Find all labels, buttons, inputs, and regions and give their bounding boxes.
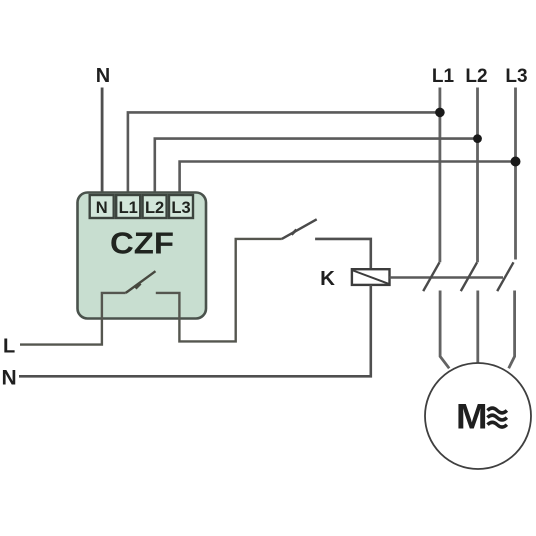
wire phase L1 vertical	[438, 88, 441, 263]
svg-text:L: L	[3, 336, 15, 358]
svg-text:L3: L3	[505, 66, 527, 87]
svg-text:L1: L1	[119, 199, 138, 217]
terminal L3 of CZF	[169, 195, 193, 218]
wire phase L3 vertical	[514, 88, 517, 260]
wire N riser to terminal N	[101, 88, 104, 197]
svg-text:L2: L2	[145, 199, 164, 217]
wire mechanical link from coil to contacts	[390, 276, 504, 278]
contactor coil K	[352, 269, 390, 285]
svg-text:K: K	[320, 267, 335, 290]
junction dot on L2	[473, 134, 482, 143]
motor triple-tilde (3-phase) wave 1	[488, 408, 507, 413]
wire coil K to N line	[19, 285, 371, 376]
wire L2 tap to CZF terminal L2	[155, 139, 478, 196]
svg-text:L1: L1	[432, 66, 455, 87]
svg-text:N: N	[96, 65, 110, 87]
wire L1 to motor	[440, 291, 449, 369]
contactor contact K1 blade (L1)	[423, 262, 439, 291]
terminal L2 of CZF	[143, 195, 167, 218]
wire switch to contactor coil	[315, 239, 371, 269]
switch S1 blade tick	[292, 230, 297, 235]
relay contact blade (inside CZF)	[126, 271, 156, 293]
junction dot on L3	[511, 157, 521, 167]
wire relay contact right lead down and over to switch	[156, 239, 282, 342]
wire phase L2 vertical	[476, 88, 479, 263]
terminal L1 of CZF	[116, 195, 140, 218]
svg-text:N: N	[2, 367, 17, 390]
wire L3 to motor	[509, 291, 515, 369]
contactor coil K diagonal	[353, 271, 389, 284]
junction dot on L1	[435, 108, 445, 118]
svg-text:M: M	[456, 398, 488, 437]
wire L3 tap to CZF terminal L3	[180, 162, 516, 197]
relay contact blade tick	[136, 284, 141, 289]
motor triple-tilde (3-phase) wave 2	[488, 415, 507, 420]
motor M body	[425, 363, 531, 469]
svg-text:CZF: CZF	[110, 226, 174, 261]
contactor contact K3 blade (L3)	[497, 262, 513, 291]
svg-text:N: N	[96, 199, 108, 217]
wire L1 tap to CZF terminal L1	[128, 112, 440, 196]
relay CZF body	[78, 193, 207, 319]
motor triple-tilde (3-phase) wave 3	[488, 422, 507, 427]
svg-text:L2: L2	[465, 66, 487, 87]
wire L2 to motor	[476, 291, 479, 363]
contactor contact K2 blade (L2)	[461, 262, 477, 291]
terminal N of CZF	[90, 195, 114, 218]
svg-text:L3: L3	[171, 199, 190, 217]
wire L input to relay contact (left lead)	[20, 293, 126, 345]
switch S1 blade	[282, 219, 317, 239]
